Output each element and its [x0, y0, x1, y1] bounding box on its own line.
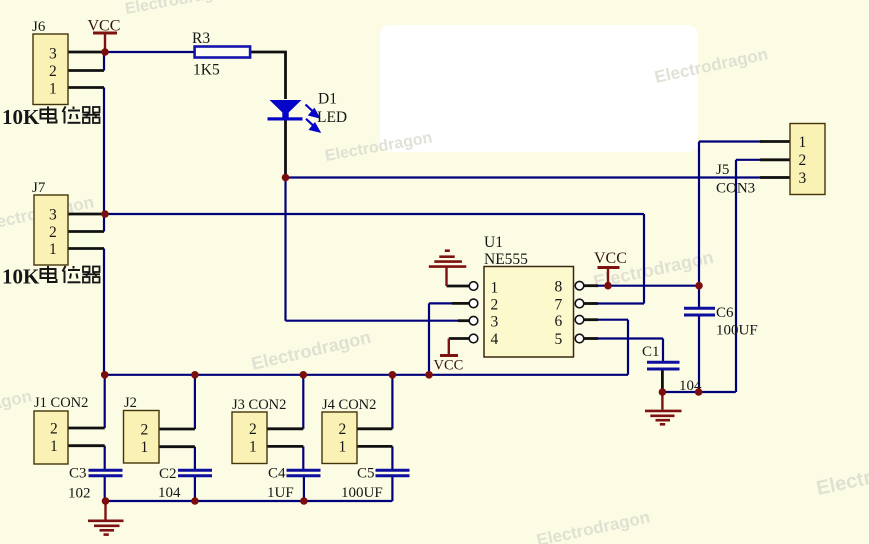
- pin J6.2: [68, 69, 104, 72]
- wire C6 bottom to gnd node: [698, 315, 700, 392]
- wire to U1 pin3: [286, 320, 463, 322]
- pin LED cathode down: [284, 120, 287, 178]
- pin J7.3: [68, 213, 104, 216]
- capacitor C3: [89, 470, 123, 476]
- svg-text:J2: J2: [124, 395, 137, 411]
- pin U1.7: [584, 302, 598, 305]
- svg-text:3: 3: [49, 207, 57, 224]
- svg-text:LED: LED: [317, 109, 347, 126]
- svg-text:5: 5: [555, 331, 563, 348]
- pin circle U1.5: [575, 334, 584, 343]
- pin J4.2: [357, 427, 392, 430]
- svg-text:2: 2: [141, 422, 149, 439]
- wire C2 bottom column: [194, 476, 196, 501]
- diode D1 LED: [268, 100, 303, 121]
- junction VCC pin8: [604, 282, 612, 290]
- pin circle U1.6: [575, 315, 584, 324]
- label C3 102: [68, 466, 91, 502]
- svg-text:CON3: CON3: [716, 181, 755, 197]
- connector J1: [34, 411, 68, 464]
- pin U1.4: [449, 337, 469, 340]
- wire J7 pin1 down to gnd bus: [103, 249, 105, 375]
- connector J4: [322, 412, 357, 464]
- label C2 104: [158, 466, 181, 501]
- svg-text:J6: J6: [32, 19, 46, 35]
- svg-text:7: 7: [555, 297, 563, 314]
- junction C6 bottom: [695, 388, 703, 396]
- wire C6 top stub: [698, 286, 700, 308]
- svg-text:1: 1: [49, 81, 57, 98]
- svg-text:U1: U1: [484, 234, 503, 251]
- wire J5 pin1 vertical: [698, 142, 700, 286]
- pin U1.5: [584, 337, 598, 340]
- wire U1 pin6 horizontal: [590, 319, 628, 321]
- connector J2: [124, 411, 160, 464]
- svg-text:J1 CON2: J1 CON2: [34, 395, 88, 411]
- svg-text:100UF: 100UF: [716, 323, 758, 339]
- wire U1 pin2 horizontal: [429, 302, 455, 304]
- junction rail x195: [191, 497, 199, 505]
- svg-text:J4 CON2: J4 CON2: [322, 397, 376, 413]
- label U1 NE555: [484, 234, 528, 268]
- pin J6.1: [68, 86, 104, 89]
- wire U1 pin8 to C6 node: [590, 285, 699, 287]
- svg-text:VCC: VCC: [594, 250, 627, 267]
- connector J6: [33, 34, 68, 105]
- svg-text:Electrodragon: Electrodragon: [249, 327, 372, 374]
- svg-text:1: 1: [339, 439, 347, 456]
- svg-text:C5: C5: [357, 466, 375, 482]
- junction at LED node: [282, 174, 290, 182]
- svg-text:2: 2: [491, 297, 499, 314]
- svg-text:10K: 10K: [2, 105, 40, 129]
- svg-text:Electrodragon: Electrodragon: [124, 0, 234, 18]
- label 10K potentiometer (J7): [2, 265, 100, 289]
- svg-text:2: 2: [339, 421, 347, 438]
- junction rail x304: [300, 497, 308, 505]
- pin U1.8: [584, 284, 598, 287]
- wire bus up to U1 pin6: [627, 320, 629, 375]
- op chip U1 NE555: [484, 267, 574, 358]
- svg-text:1: 1: [50, 438, 58, 455]
- wire C4 top column: [302, 446, 304, 470]
- svg-text:C6: C6: [716, 305, 734, 321]
- svg-text:6: 6: [555, 313, 563, 330]
- connector J7: [34, 195, 68, 265]
- wire J7 pin2 riser: [103, 214, 105, 232]
- svg-text:102: 102: [68, 486, 91, 502]
- svg-text:3: 3: [49, 46, 57, 63]
- svg-text:Electrodragon: Electrodragon: [324, 129, 434, 165]
- pin C1 bottom stub: [661, 369, 664, 392]
- wire J5 pin2 vertical: [735, 160, 737, 392]
- wire J6 pin1 down to J7 node: [103, 88, 105, 215]
- svg-text:10K: 10K: [2, 265, 40, 289]
- wire J6 pin2 riser: [103, 52, 105, 71]
- wire U1 pin2 to bus: [428, 303, 430, 374]
- capacitor C1: [647, 362, 680, 369]
- ground at C1: [645, 392, 682, 424]
- label C4 1UF: [267, 466, 294, 502]
- svg-text:3: 3: [799, 170, 807, 187]
- svg-text:2: 2: [249, 421, 257, 438]
- pin J3.2: [267, 427, 303, 430]
- pin J4.1: [357, 445, 392, 448]
- wire C5 top column: [391, 446, 393, 470]
- wire LED node to J5 pin3: [286, 176, 791, 178]
- pin J5.1: [760, 140, 790, 143]
- junction C6 top: [695, 282, 703, 290]
- pin U1.6: [584, 318, 598, 321]
- label J5 CON3: [716, 162, 755, 197]
- capacitor C6: [684, 308, 715, 315]
- svg-text:C1: C1: [642, 344, 660, 360]
- pin J2.1: [159, 445, 195, 448]
- wire C2 top column: [194, 447, 196, 470]
- pin circle U1.7: [575, 299, 584, 308]
- wire C1 top stub: [662, 339, 664, 363]
- capacitor C5: [376, 470, 410, 476]
- svg-text:J3 CON2: J3 CON2: [232, 397, 286, 413]
- svg-text:C4: C4: [268, 466, 286, 482]
- resistor R3: [195, 47, 251, 58]
- label C6 100UF: [716, 305, 758, 339]
- pin J7.2: [68, 230, 104, 233]
- wire J2 pin2 riser: [194, 375, 196, 429]
- svg-text:Electrodragon: Electrodragon: [535, 507, 652, 544]
- connector J5: [790, 124, 825, 195]
- pin circle U1.8: [575, 281, 584, 290]
- white blanked region: [380, 25, 698, 152]
- svg-text:1: 1: [491, 280, 499, 297]
- label C5 100UF: [341, 466, 383, 502]
- pin J2.2: [159, 428, 195, 431]
- junction bus x195: [191, 371, 199, 379]
- power VCC at U1 pin8: [594, 250, 627, 286]
- pin U1.2: [452, 302, 469, 305]
- label 10K potentiometer (J6): [2, 105, 100, 129]
- wire J5 pin1 horizontal: [699, 140, 762, 142]
- svg-text:1: 1: [799, 134, 807, 151]
- svg-text:1K5: 1K5: [193, 62, 220, 79]
- pin J7.1: [68, 247, 104, 250]
- pin circle U1.3: [469, 316, 478, 325]
- ground at U1 pin1: [429, 251, 467, 286]
- svg-text:104: 104: [158, 485, 181, 501]
- svg-text:2: 2: [49, 63, 57, 80]
- svg-text:C2: C2: [159, 466, 177, 482]
- power VCC top-left: [88, 18, 121, 53]
- power VCC at U1 pin4: [434, 339, 464, 374]
- junction bus x392: [389, 371, 397, 379]
- junction at J7: [101, 210, 109, 218]
- junction bus x303: [300, 371, 308, 379]
- wire J4 pin2 riser: [391, 375, 393, 429]
- svg-text:VCC: VCC: [434, 358, 464, 374]
- svg-text:1: 1: [249, 439, 257, 456]
- wire J5 pin2 horizontal: [736, 159, 762, 161]
- svg-text:J5: J5: [716, 162, 729, 178]
- junction rail x105: [102, 497, 110, 505]
- svg-text:Electrodragon: Electrodragon: [814, 450, 869, 500]
- svg-text:1: 1: [49, 241, 57, 258]
- wire gnd link C1 to J5 pin2: [662, 391, 735, 393]
- svg-text:2: 2: [49, 224, 57, 241]
- pin J3.1: [267, 445, 303, 448]
- ground at bottom rail: [88, 501, 124, 535]
- junction bus x105: [101, 371, 109, 379]
- capacitor C4: [287, 470, 321, 476]
- junction bus x429: [425, 371, 433, 379]
- wire C4 bottom column: [303, 476, 305, 501]
- wire gnd bus: [105, 374, 628, 376]
- wire C3 top column: [104, 446, 106, 470]
- connector J3: [232, 412, 267, 464]
- wire C5 bottom column: [391, 476, 393, 501]
- svg-text:NE555: NE555: [484, 251, 528, 268]
- svg-text:J7: J7: [32, 180, 46, 196]
- pin U1.3: [458, 319, 469, 322]
- wire down to U1 pin7: [643, 214, 645, 304]
- svg-text:D1: D1: [318, 91, 337, 108]
- pin circle U1.1: [469, 282, 478, 291]
- capacitor C2: [178, 470, 212, 476]
- pin J5.3: [760, 176, 790, 179]
- pin U1.1: [447, 285, 470, 288]
- svg-text:1: 1: [141, 439, 149, 456]
- svg-text:8: 8: [555, 279, 563, 296]
- svg-text:Electrodragon: Electrodragon: [0, 386, 34, 429]
- svg-text:4: 4: [491, 331, 499, 348]
- svg-text:3: 3: [491, 314, 499, 331]
- pin circle U1.4: [469, 334, 478, 343]
- pin J5.2: [760, 158, 790, 161]
- pin J1.2: [68, 427, 105, 430]
- wire LED node down to pin3 row: [284, 178, 286, 321]
- wire capacitor bottom rail: [106, 500, 393, 502]
- svg-text:2: 2: [50, 421, 58, 438]
- svg-text:C3: C3: [69, 466, 87, 482]
- junction at VCC J6: [101, 48, 109, 56]
- LED arrows: [306, 105, 320, 132]
- wire J7 node to U1 pin7 column: [105, 213, 644, 215]
- pin J1.1: [68, 444, 105, 447]
- wire U1 pin7 horizontal: [590, 302, 644, 304]
- pin R3 right and LED anode wire: [250, 52, 286, 99]
- wire C3 bottom column: [104, 476, 106, 501]
- wire VCC junction to R3: [105, 51, 194, 53]
- wire J3 pin2 riser: [302, 375, 304, 429]
- svg-text:2: 2: [799, 152, 807, 169]
- svg-text:R3: R3: [192, 30, 210, 47]
- pin circle U1.2: [469, 299, 478, 308]
- svg-text:1UF: 1UF: [267, 485, 294, 501]
- pin J6.3: [68, 51, 104, 54]
- svg-text:100UF: 100UF: [341, 485, 383, 501]
- junction C1 bottom: [659, 388, 667, 396]
- wire J1 pin2 riser: [104, 375, 106, 428]
- wire U1 pin5 horizontal: [590, 337, 663, 339]
